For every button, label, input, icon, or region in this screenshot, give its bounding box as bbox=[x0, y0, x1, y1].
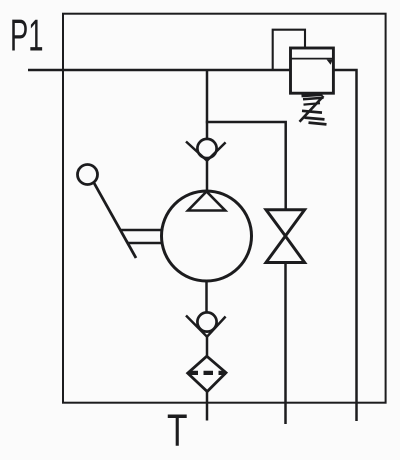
wire: filter to tank bbox=[206, 392, 209, 421]
relief valve spring bbox=[300, 96, 324, 122]
lever knob bbox=[78, 165, 98, 185]
wire: relief valve outlet to tank line bbox=[333, 70, 356, 421]
relief valve RV1 body bbox=[291, 48, 334, 93]
wire: branch to shut-off valve bbox=[206, 121, 286, 210]
wire: check valve V1 to pump bbox=[206, 160, 209, 191]
hand pump P (circle) bbox=[162, 191, 252, 281]
lever arm bbox=[94, 182, 137, 258]
check valve V2 (bottom) bbox=[186, 312, 226, 336]
filter F1 (diamond) bbox=[188, 356, 226, 391]
wire: pressure line P1 to relief valve bbox=[28, 69, 291, 72]
svg-text:P1: P1 bbox=[10, 12, 44, 61]
lever link lines bbox=[120, 230, 162, 243]
relief valve internal arrowhead bbox=[327, 60, 333, 65]
wire: check valve V2 to filter bbox=[206, 336, 209, 357]
relief valve internal line bbox=[291, 58, 334, 60]
relief valve spring seat bbox=[302, 95, 323, 96]
relief valve RV1 pilot line rectangle bbox=[273, 30, 305, 70]
svg-text:T: T bbox=[167, 405, 188, 456]
filter element dashed line bbox=[189, 371, 227, 375]
enclosure border bbox=[63, 14, 386, 403]
wire: main vertical from pressure line bbox=[206, 69, 209, 139]
wire: pump to check valve V2 bbox=[205, 281, 208, 312]
check valve V1 (top) bbox=[186, 139, 226, 161]
wire: shut-off valve to tank bbox=[284, 263, 287, 425]
shut-off valve V3 (bowtie) bbox=[266, 210, 305, 263]
hand pump outlet triangle bbox=[188, 192, 225, 211]
